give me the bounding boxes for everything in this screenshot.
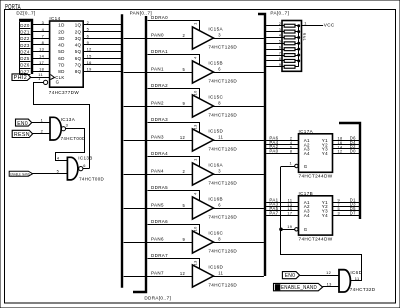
svg-text:5: 5: [87, 27, 90, 32]
svg-text:D0: D0: [350, 149, 356, 154]
wire ENABLE_NAND to IC13B pin 5: [32, 168, 68, 173]
svg-text:2Q: 2Q: [75, 29, 82, 34]
svg-text:74HCT126D: 74HCT126D: [208, 113, 237, 118]
svg-text:74HCT00D: 74HCT00D: [61, 136, 86, 141]
svg-text:3: 3: [42, 20, 45, 25]
svg-text:DDRA5: DDRA5: [151, 185, 168, 190]
wire PA2 to RN1 pin 4: [266, 34, 284, 38]
svg-text:2: 2: [183, 169, 186, 174]
node PHI2: [12, 74, 31, 81]
wire DDRA7 (enable, pin 13): [148, 253, 200, 268]
svg-text:9: 9: [183, 101, 186, 106]
svg-text:19: 19: [87, 67, 92, 72]
svg-text:3: 3: [279, 28, 281, 32]
wire PA1 to IC17B pin 11: [266, 197, 298, 202]
svg-text:DZ0: DZ0: [20, 23, 30, 28]
wire EN0 to IC6D pin 12: [300, 270, 339, 276]
svg-text:IC16D: IC16D: [208, 265, 223, 270]
svg-text:8: 8: [290, 150, 292, 154]
buffer IC15D 74HCT126D: [192, 129, 237, 152]
svg-text:DZ3: DZ3: [20, 43, 30, 48]
buffer IC17A 74HCT244DW: [295, 129, 333, 179]
wire IC17B pin 9 to D1: [333, 197, 360, 202]
svg-text:12: 12: [326, 270, 331, 275]
svg-text:12: 12: [338, 150, 343, 154]
wire IC14 pin 9 to PAN bus: [83, 40, 121, 45]
svg-text:3Q: 3Q: [75, 36, 82, 41]
wire PA7 to IC17B pin 17: [266, 211, 298, 216]
svg-text:ENABLE_NAND: ENABLE_NAND: [281, 285, 317, 291]
wire DZ4 to IC14 pin 13: [33, 47, 50, 52]
svg-text:3: 3: [338, 212, 340, 216]
NAND gate IC13B 74HCT00D: [67, 156, 104, 182]
wire IC14 pin 5 to PAN bus: [83, 27, 121, 32]
svg-text:74HCT126D: 74HCT126D: [208, 215, 237, 220]
buffer IC16D 74HCT126D: [192, 265, 237, 288]
svg-text:6: 6: [83, 163, 86, 168]
svg-text:2: 2: [279, 22, 281, 26]
OR gate IC6D 74HCT32D: [339, 270, 376, 293]
wire IC14 pin 6 to PAN bus: [83, 33, 121, 38]
wire PA0 to RN1 pin 2: [266, 22, 284, 26]
svg-text:9: 9: [279, 63, 281, 67]
svg-text:IC15A: IC15A: [208, 27, 223, 32]
node RESN: [12, 130, 32, 138]
bus D (data): [339, 123, 360, 219]
wire RESN to IC13A pin 2: [33, 128, 51, 133]
svg-text:IC14: IC14: [49, 16, 60, 21]
svg-text:2: 2: [41, 128, 44, 133]
svg-text:4: 4: [279, 34, 281, 38]
wire enable to IC17B pin 19: [281, 224, 295, 230]
svg-text:PA7: PA7: [269, 211, 278, 216]
wire DZ6 to IC14 pin 17: [33, 60, 50, 65]
wire DZ3 to IC14 pin 8: [33, 40, 50, 45]
wire PAN1 (input, pin 5): [124, 67, 193, 73]
svg-text:DDRA1: DDRA1: [151, 49, 168, 54]
svg-text:15: 15: [87, 53, 92, 58]
svg-text:74HCT244DW: 74HCT244DW: [299, 174, 333, 179]
svg-text:74HCT126D: 74HCT126D: [208, 283, 237, 288]
svg-text:RESN: RESN: [14, 132, 30, 138]
svg-text:12: 12: [87, 47, 92, 52]
buffer IC15C 74HCT126D: [192, 95, 237, 118]
svg-text:IC16B: IC16B: [208, 197, 223, 202]
svg-text:74HCT126D: 74HCT126D: [208, 45, 237, 50]
svg-text:18: 18: [39, 67, 44, 72]
svg-text:ENABLE_NAND: ENABLE_NAND: [10, 172, 30, 176]
svg-text:8: 8: [42, 40, 45, 45]
wire PA5 to IC17B pin 15: [266, 206, 298, 211]
svg-text:6: 6: [87, 33, 90, 38]
svg-text:IC15B: IC15B: [208, 61, 223, 66]
node labels DZ0-DZ7: [19, 22, 30, 75]
wire IC15D pin 11 to PA bus: [213, 140, 264, 142]
svg-text:G: G: [304, 164, 308, 169]
svg-text:DZ4: DZ4: [20, 49, 30, 54]
wire IC15A pin 3 to PA bus: [213, 38, 264, 40]
svg-text:74HCT244DW: 74HCT244DW: [299, 236, 333, 241]
wire IC16A pin 3 to PA bus: [213, 174, 264, 176]
svg-text:IC15D: IC15D: [208, 129, 223, 134]
svg-text:11: 11: [218, 271, 223, 276]
svg-text:74HCT126D: 74HCT126D: [208, 181, 237, 186]
node ENABLE_NAND (left): [9, 171, 32, 176]
svg-text:5: 5: [279, 40, 281, 44]
wire PAN5 (input, pin 5): [124, 203, 193, 209]
wire IC14 pin 16 to PAN bus: [83, 60, 121, 65]
svg-text:12: 12: [180, 271, 186, 276]
svg-text:3: 3: [218, 169, 221, 174]
svg-text:EN0: EN0: [285, 273, 296, 279]
svg-text:1: 1: [41, 117, 44, 122]
wire DDRA2 (enable, pin 10): [148, 83, 200, 98]
svg-text:13: 13: [327, 281, 332, 286]
wire EN0 to IC13A pin 1: [32, 117, 50, 122]
svg-text:G: G: [56, 80, 60, 85]
svg-text:DDRA4: DDRA4: [151, 151, 168, 156]
sheet title PORTA: [5, 4, 21, 11]
svg-text:17: 17: [287, 212, 292, 216]
node EN0 (bottom): [282, 272, 299, 280]
bus DDRA[0..7]: [133, 16, 171, 301]
svg-text:PAN6: PAN6: [151, 237, 164, 242]
svg-text:11: 11: [355, 276, 360, 281]
svg-text:VCC: VCC: [324, 22, 335, 27]
wire DDRA6 (enable, pin 10): [148, 219, 200, 234]
svg-text:1: 1: [289, 161, 292, 166]
svg-text:PAN0: PAN0: [151, 33, 164, 38]
svg-text:2: 2: [87, 20, 90, 25]
svg-text:DDRA3: DDRA3: [151, 117, 168, 122]
svg-text:5Q: 5Q: [75, 49, 82, 54]
wire PA5 to RN1 pin 7: [266, 51, 284, 55]
svg-text:6: 6: [218, 67, 221, 72]
buffer IC17B 74HCT244DW: [295, 191, 333, 242]
svg-text:IC16A: IC16A: [208, 163, 223, 168]
svg-text:IC16C: IC16C: [208, 231, 223, 236]
svg-text:RN1: RN1: [302, 33, 306, 42]
svg-text:1: 1: [193, 158, 198, 161]
svg-text:74HCT126D: 74HCT126D: [208, 249, 237, 254]
wire IC14 pin 2 to PAN bus: [83, 20, 121, 25]
register IC14 74HC377DW: [44, 16, 84, 95]
buffer IC16C 74HCT126D: [192, 231, 237, 254]
wire IC16B pin 6 to PA bus: [213, 208, 264, 210]
wire PA3 to RN1 pin 5: [266, 40, 284, 44]
wire ENABLE_NAND to IC6D pin 13: [323, 281, 339, 286]
svg-text:IC17A: IC17A: [299, 129, 314, 134]
svg-text:17: 17: [39, 60, 44, 65]
bus DZ[0..7]: [16, 11, 35, 74]
svg-text:8Q: 8Q: [75, 69, 82, 74]
svg-text:6: 6: [279, 45, 281, 49]
svg-text:1: 1: [38, 76, 41, 81]
svg-text:74HCT32D: 74HCT32D: [350, 287, 376, 292]
wire IC15C pin 8 to PA bus: [213, 106, 264, 108]
svg-text:4Q: 4Q: [75, 43, 82, 48]
node ENABLE_NAND (bottom): [274, 283, 323, 291]
svg-text:PAN1: PAN1: [151, 67, 164, 72]
wire IC14 pin 19 to PAN bus: [83, 67, 121, 72]
buffer IC15B 74HCT126D: [192, 61, 237, 84]
wire enable to IC17A pin 1: [281, 161, 295, 167]
wire PAN4 (input, pin 2): [124, 169, 193, 175]
wire IC14 pin 12 to PAN bus: [83, 47, 121, 52]
svg-text:7: 7: [338, 203, 340, 207]
wire PA2 to IC17A pin 6: [266, 144, 298, 149]
svg-text:1: 1: [304, 21, 307, 26]
svg-text:11: 11: [218, 135, 223, 140]
wire IC13A.3 to IC13B pin 4: [56, 129, 85, 161]
svg-text:DZ6: DZ6: [20, 63, 30, 68]
svg-text:14: 14: [39, 53, 45, 58]
wire PA4 to IC17A pin 4: [266, 140, 298, 145]
node EN0: [16, 119, 32, 127]
svg-text:5: 5: [338, 207, 340, 211]
wire IC16D pin 11 to PA bus: [213, 276, 264, 278]
svg-text:DDRA0: DDRA0: [151, 15, 168, 20]
svg-text:PA0: PA0: [269, 149, 278, 154]
wire IC17B pin 5 to D5: [333, 206, 360, 211]
wire PAN6 (input, pin 9): [124, 237, 193, 243]
svg-text:9: 9: [338, 198, 340, 202]
svg-text:Y4: Y4: [322, 213, 328, 218]
wire PAN0 (input, pin 2): [124, 33, 193, 39]
wire PAN7 (input, pin 12): [124, 271, 193, 277]
svg-text:IC6D: IC6D: [350, 270, 362, 275]
svg-text:3D: 3D: [58, 36, 65, 41]
svg-text:13: 13: [39, 47, 44, 52]
svg-text:13: 13: [287, 203, 292, 207]
svg-text:5: 5: [183, 67, 186, 72]
svg-text:8: 8: [218, 237, 221, 242]
svg-text:11: 11: [288, 198, 293, 202]
NAND gate IC13A 74HCT00D: [50, 117, 86, 141]
svg-text:8: 8: [279, 57, 281, 61]
svg-text:PA[0..7]: PA[0..7]: [270, 10, 289, 15]
svg-text:7D: 7D: [58, 63, 65, 68]
svg-text:Y4: Y4: [322, 151, 328, 156]
wire DZ5 to IC14 pin 14: [33, 53, 50, 58]
buffer IC16B 74HCT126D: [192, 197, 237, 220]
wire IC13B.6 to IC14 G pin 1: [34, 76, 90, 169]
wire DZ7 to IC14 pin 18: [33, 67, 50, 72]
wire PA4 to RN1 pin 6: [266, 45, 284, 49]
wire DDRA4 (enable, pin 1): [148, 151, 200, 166]
svg-text:6D: 6D: [58, 56, 65, 61]
svg-text:3: 3: [218, 33, 221, 38]
svg-text:5: 5: [183, 203, 186, 208]
svg-text:74HCT126D: 74HCT126D: [208, 147, 237, 152]
wire DDRA5 (enable, pin 4): [148, 185, 200, 200]
svg-text:7Q: 7Q: [75, 63, 82, 68]
svg-text:5D: 5D: [58, 49, 65, 54]
wire DZ1 to IC14 pin 4: [33, 27, 50, 32]
svg-text:A4: A4: [304, 151, 310, 156]
svg-text:DDRA[0..7]: DDRA[0..7]: [144, 296, 171, 301]
svg-text:A4: A4: [304, 213, 310, 218]
svg-text:9: 9: [87, 40, 90, 45]
wire IC14 pin 15 to PAN bus: [83, 53, 121, 58]
buffer IC16A 74HCT126D: [192, 163, 237, 186]
svg-text:7: 7: [279, 51, 281, 55]
svg-text:D7: D7: [350, 211, 356, 216]
svg-text:PAN3: PAN3: [151, 135, 164, 140]
svg-text:9: 9: [183, 237, 186, 242]
svg-text:G: G: [304, 227, 308, 232]
wire PA6 to RN1 pin 8: [266, 57, 284, 61]
svg-text:DDRA6: DDRA6: [151, 219, 168, 224]
wire IC15B pin 6 to PA bus: [213, 72, 264, 74]
wire PA7 to RN1 pin 9: [266, 63, 284, 67]
wire PA1 to RN1 pin 3: [266, 28, 284, 32]
svg-text:5: 5: [57, 168, 60, 173]
svg-text:PAN2: PAN2: [151, 101, 164, 106]
power VCC (RN1 pin 1): [301, 21, 334, 28]
wire DZ2 to IC14 pin 7: [33, 33, 50, 38]
svg-text:6: 6: [218, 203, 221, 208]
svg-text:16: 16: [87, 60, 92, 65]
wire IC17A pin 16 to D4: [333, 140, 360, 145]
wire IC17B pin 3 to D7: [333, 211, 360, 216]
bus PAN[0..7]: [122, 10, 152, 287]
wire DDRA0 (enable, pin 1): [148, 15, 200, 30]
svg-text:PHI2: PHI2: [14, 75, 27, 81]
wire IC17A pin 18 to D6: [333, 136, 360, 141]
wire IC13B output: [83, 168, 90, 170]
svg-text:74HCT00D: 74HCT00D: [79, 176, 104, 181]
svg-text:DZ5: DZ5: [20, 56, 30, 61]
svg-text:DZ1: DZ1: [20, 29, 30, 34]
buffer IC15A 74HCT126D: [192, 27, 237, 50]
svg-text:DZ2: DZ2: [20, 36, 30, 41]
svg-text:PAN7: PAN7: [151, 271, 164, 276]
svg-text:DDRA2: DDRA2: [151, 83, 168, 88]
svg-text:1Q: 1Q: [75, 23, 82, 28]
wire IC16C pin 8 to PA bus: [213, 242, 264, 244]
wire IC6D.11 to IC17A.1/IC17B.19 (enable net): [281, 167, 362, 281]
svg-text:12: 12: [180, 135, 186, 140]
wire PHI2 to IC14 pin 11: [31, 72, 50, 77]
junction at IC17B pin 19: [280, 228, 283, 231]
svg-text:7: 7: [42, 33, 45, 38]
svg-text:3: 3: [66, 123, 69, 128]
wire DDRA3 (enable, pin 13): [148, 117, 200, 132]
wire PA6 to IC17A pin 2: [266, 136, 298, 141]
svg-text:IC13B: IC13B: [78, 156, 93, 161]
resistor network RN1: [282, 21, 306, 72]
wire PAN2 (input, pin 9): [124, 101, 193, 107]
svg-text:8: 8: [218, 101, 221, 106]
svg-text:1: 1: [193, 22, 198, 25]
svg-text:19: 19: [287, 224, 292, 229]
svg-text:4D: 4D: [58, 43, 65, 48]
wire PA3 to IC17B pin 13: [266, 202, 298, 207]
wire PAN3 (input, pin 12): [124, 135, 193, 141]
wire IC17B pin 7 to D3: [333, 202, 360, 207]
svg-text:1D: 1D: [58, 23, 65, 28]
svg-text:6Q: 6Q: [75, 56, 82, 61]
svg-text:PAN4: PAN4: [151, 169, 164, 174]
svg-text:DZ[0..7]: DZ[0..7]: [16, 11, 35, 16]
wire IC17A pin 12 to D0: [333, 149, 360, 154]
wire DZ0 to IC14 pin 3: [33, 20, 50, 25]
svg-text:2D: 2D: [58, 29, 65, 34]
svg-text:15: 15: [287, 207, 292, 211]
svg-text:PAN5: PAN5: [151, 203, 164, 208]
wire PA0 to IC17A pin 8: [266, 149, 298, 154]
svg-text:IC17B: IC17B: [299, 191, 314, 196]
svg-text:EN0: EN0: [17, 121, 28, 127]
svg-text:2: 2: [183, 33, 186, 38]
svg-text:8D: 8D: [58, 69, 65, 74]
svg-text:IC13A: IC13A: [61, 117, 76, 122]
svg-text:74HCT126D: 74HCT126D: [208, 79, 237, 84]
svg-text:IC15C: IC15C: [208, 95, 223, 100]
bus PA[0..7]: [258, 10, 289, 276]
wire DDRA1 (enable, pin 4): [148, 49, 200, 64]
svg-text:74HC377DW: 74HC377DW: [49, 90, 80, 95]
svg-text:PAN[0..7]: PAN[0..7]: [130, 10, 152, 15]
wire IC17A pin 14 to D2: [333, 144, 360, 149]
svg-text:DDRA7: DDRA7: [151, 253, 168, 258]
